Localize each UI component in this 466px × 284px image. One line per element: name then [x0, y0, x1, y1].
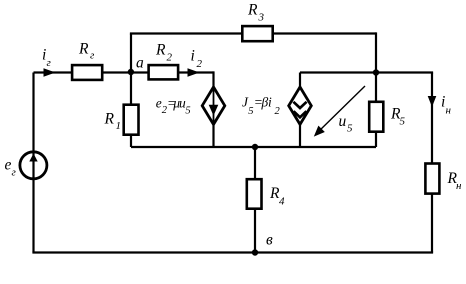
svg-text:г: г	[90, 49, 95, 61]
svg-text:в: в	[266, 232, 273, 249]
svg-text:3: 3	[258, 12, 265, 24]
resistor R3	[242, 26, 272, 41]
svg-text:2: 2	[167, 52, 173, 64]
svg-text:u: u	[339, 113, 347, 130]
resistor R2	[149, 65, 179, 79]
resistor Rn	[425, 164, 439, 194]
svg-text:н: н	[456, 180, 462, 192]
arrow ig	[44, 68, 56, 77]
svg-text:R: R	[104, 110, 115, 127]
node a	[128, 69, 134, 75]
svg-text:2: 2	[197, 58, 203, 70]
svg-text:R: R	[78, 40, 89, 57]
svg-text:г: г	[47, 57, 52, 69]
wire	[254, 147, 256, 253]
resistor R5	[369, 102, 383, 132]
svg-text:1: 1	[116, 120, 122, 132]
wire	[431, 73, 433, 253]
dependent source e2 (diamond)	[202, 87, 225, 124]
svg-text:г: г	[12, 166, 17, 178]
wire	[130, 73, 132, 148]
svg-text:н: н	[446, 105, 452, 117]
svg-text:5: 5	[347, 123, 353, 135]
resistor R4	[247, 179, 262, 209]
wire	[300, 71, 433, 73]
wire	[299, 73, 301, 148]
svg-text:R: R	[155, 41, 166, 58]
svg-text:R: R	[247, 2, 258, 19]
wire	[375, 32, 377, 147]
svg-text:4: 4	[279, 195, 285, 207]
svg-text:e: e	[5, 156, 12, 173]
wire	[32, 251, 433, 253]
node v	[252, 249, 258, 255]
svg-text:i: i	[268, 95, 272, 110]
wire	[212, 71, 214, 147]
wire	[34, 71, 214, 73]
svg-text:2: 2	[275, 106, 281, 117]
resistor Rg	[72, 65, 102, 80]
arrow i2	[188, 68, 200, 77]
svg-text:a: a	[136, 55, 144, 72]
wire	[32, 73, 34, 253]
svg-text:5: 5	[400, 115, 406, 127]
svg-text:5: 5	[248, 106, 253, 117]
wire	[130, 34, 132, 73]
wire	[131, 146, 376, 148]
node junction top right	[373, 69, 379, 75]
arrow u5	[317, 86, 365, 133]
svg-text:5: 5	[185, 106, 190, 117]
arrow in	[428, 96, 437, 107]
resistor R1	[124, 105, 139, 135]
node R4 top	[252, 144, 258, 150]
wire	[130, 32, 376, 34]
source eg	[20, 152, 47, 179]
dependent source J5 (diamond)	[289, 87, 312, 124]
svg-text:i: i	[191, 48, 195, 65]
